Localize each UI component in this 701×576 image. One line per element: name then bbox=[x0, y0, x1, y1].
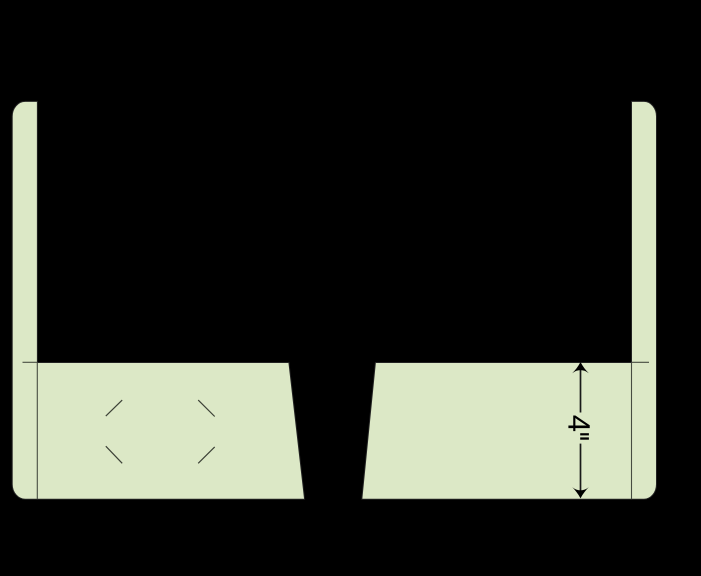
right fold line bbox=[631, 363, 633, 500]
card slit bottom-left bbox=[106, 446, 122, 463]
right pocket + right glue strip (one die-cut piece) bbox=[362, 101, 657, 499]
dimension label inch mark bar 1 bbox=[580, 433, 589, 435]
right score tick bbox=[632, 361, 650, 363]
left score tick bbox=[23, 361, 38, 363]
card slit top-right bbox=[198, 400, 215, 416]
left glue strip + left pocket (one die-cut piece) bbox=[12, 101, 304, 499]
card slit top-left bbox=[106, 400, 122, 416]
dimension line upper segment bbox=[580, 366, 582, 413]
dimension label 4 (rotated 90 degrees clockwise, drawn as path) bbox=[568, 416, 589, 432]
dimension label inch mark bar 2 bbox=[580, 437, 589, 439]
card slit bottom-right bbox=[198, 447, 215, 463]
dimension line lower segment bbox=[580, 444, 582, 495]
left fold line bbox=[36, 363, 38, 500]
dimension arrowhead top bbox=[572, 362, 589, 373]
dimension arrowhead bottom bbox=[572, 487, 589, 498]
